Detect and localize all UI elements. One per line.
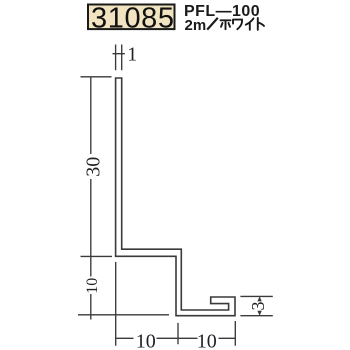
bottom 10 text right <box>197 330 217 350</box>
dimension 3 text <box>248 302 268 311</box>
dimension 30 extension lines <box>78 77 169 315</box>
svg-text:10: 10 <box>84 278 101 294</box>
svg-text:30: 30 <box>83 157 105 177</box>
dimension 30 text <box>83 157 105 177</box>
dimension 10 left text <box>84 278 101 294</box>
spec label 2m/white <box>185 17 265 34</box>
model label PFL-100 <box>184 3 260 20</box>
svg-text:3: 3 <box>248 302 268 311</box>
dimension 1 (wall thickness) <box>113 45 125 71</box>
bottom 10 text left <box>136 330 156 350</box>
svg-text:1: 1 <box>127 44 137 66</box>
dimension 3 extension lines <box>240 296 272 315</box>
part number box <box>88 2 175 34</box>
dimension line vertical 30/10 <box>90 77 92 320</box>
svg-text:31085: 31085 <box>91 2 175 34</box>
slash <box>207 18 218 30</box>
katakana HO <box>221 20 231 29</box>
svg-text:10: 10 <box>197 330 217 350</box>
katakana I <box>246 18 254 29</box>
profile outline <box>116 78 235 316</box>
katakana WA <box>233 20 242 30</box>
katakana TO <box>258 18 264 30</box>
bottom dimension line <box>116 337 236 339</box>
dimension 1 text <box>127 44 137 66</box>
dimension 3 arrows <box>257 296 261 315</box>
bottom dimension ticks/extensions <box>116 262 236 346</box>
svg-text:10: 10 <box>136 330 156 350</box>
svg-text:2m: 2m <box>185 17 207 34</box>
